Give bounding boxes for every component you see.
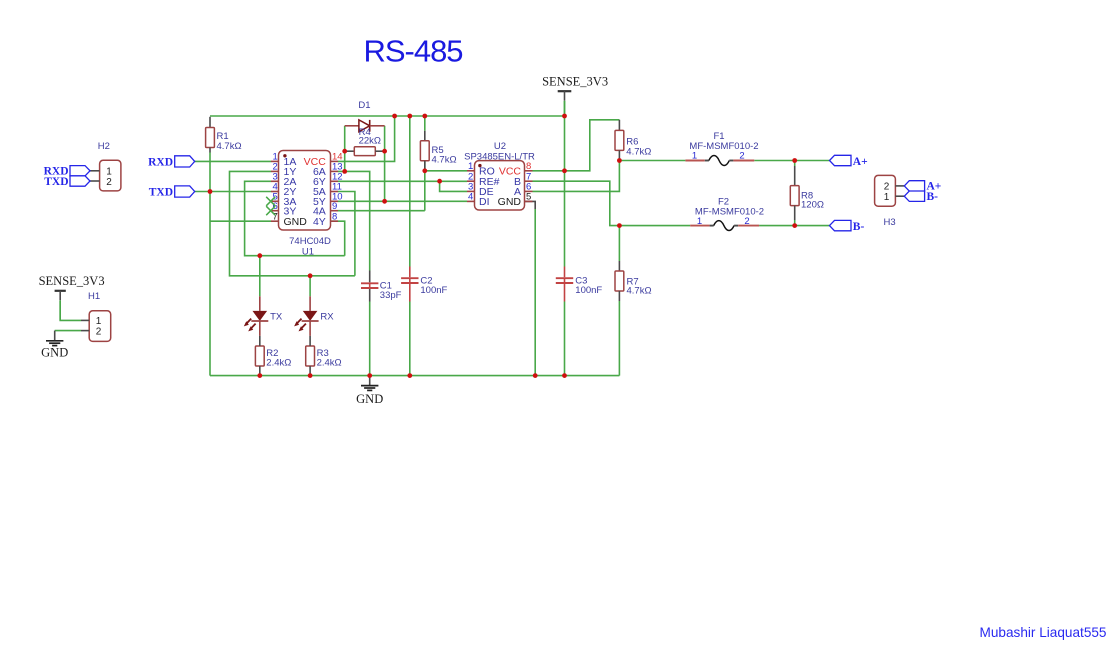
wire R5 junction to U2 pin1 RO [425,170,467,172]
svg-text:B-: B- [853,221,865,233]
wire H1 pin2 to GND [55,330,81,332]
wire B- line to F2 [619,225,690,227]
wire R5 bottom to RO line and U1 pin9 [424,161,426,211]
svg-text:2: 2 [96,326,102,337]
svg-text:GND: GND [41,345,68,359]
junction rail R2 (259.8,375.6) [257,373,262,378]
junction RX top (310.1,275.8) [308,273,313,278]
wire net GND bottom rail [210,375,619,377]
wire U2 DE tie to RE# line [440,181,467,191]
svg-text:2: 2 [739,151,744,162]
net label A+ at H3 [904,181,924,191]
resistor R5 [420,131,456,171]
resistor R2 [255,346,291,376]
svg-text:GND: GND [356,392,383,406]
wire U1 pin7 GND to left vertical [210,220,271,222]
junction R6/A+ (619.4,160.5) [617,158,622,163]
junction TXD/R1 (210,191.5) [208,189,213,194]
junction rail3 (424.8,116) [422,114,427,119]
svg-text:1: 1 [884,192,890,203]
junction rail C3 (564.5,375.6) [562,373,567,378]
junction pin13 (344.7,171.4) [342,169,347,174]
wire C2 bottom to GND rail [409,302,411,376]
svg-text:33pF: 33pF [380,290,402,301]
wire C1 bottom to GND rail [369,302,371,376]
wire R5 column top [424,116,426,131]
wire B- line F2 to flag [759,225,829,227]
ground symbol main [369,376,371,386]
junction rail1 (394.6,116) [392,114,397,119]
svg-text:H3: H3 [884,217,896,228]
wire U1 pin8 loop to TX line [331,221,345,256]
svg-text:5: 5 [526,192,531,203]
wire U1 pin11 vertical to RX line [338,192,355,276]
svg-text:SENSE_3V3: SENSE_3V3 [39,274,105,288]
svg-text:4.7kΩ: 4.7kΩ [217,141,242,152]
power flag SENSE_3V3 main [558,90,572,92]
wire TX LED top connection [259,256,261,297]
svg-text:4Y: 4Y [313,216,326,228]
svg-text:1: 1 [692,151,697,162]
net label B- at H3 [904,191,924,201]
junction R4 left (344.7,151.2) [342,149,347,154]
op-amp U2 SP3485EN-L/TR transceiver [464,141,535,210]
svg-text:SP3485EN-L/TR: SP3485EN-L/TR [464,151,535,162]
junction rail U2gnd (535.2,375.6) [533,373,538,378]
wire C3 bottom to GND rail [564,302,566,376]
svg-text:1: 1 [468,161,473,172]
svg-text:Mubashir Liaquat555: Mubashir Liaquat555 [980,625,1107,640]
wire R8 top connection [794,161,796,167]
wire RX LED top connection [309,276,311,297]
wire SENSE_3V3 vertical to C3 [564,101,566,267]
svg-text:2: 2 [106,177,112,188]
svg-text:B-: B- [927,191,939,203]
resistor R1 [206,117,242,153]
junction rail C2 (409.8,375.6) [407,373,412,378]
wire U2 pin7 B jog down to B- line [533,181,620,225]
junction pin10 (384.6,201.3) [382,199,387,204]
resistor R6 [615,120,651,161]
junction RE/DE (439.6,181.2) [437,179,442,184]
junction rail2 (409.8,116) [407,114,412,119]
connector H1 [81,291,111,341]
svg-text:RS-485: RS-485 [363,34,462,69]
svg-text:GND: GND [498,196,522,208]
diode D1 [345,100,385,132]
no-connect X on U1 pin 5 [266,197,275,206]
svg-text:TX: TX [270,311,283,322]
svg-text:RX: RX [320,311,334,322]
svg-text:120Ω: 120Ω [801,200,824,211]
resistor R4 [345,127,385,156]
junction rail R3 (310.1,375.6) [308,373,313,378]
fuse F1 MF-MSMF010-2 [685,131,758,165]
svg-text:D1: D1 [358,100,370,111]
svg-text:2: 2 [744,216,749,227]
svg-text:4.7kΩ: 4.7kΩ [627,286,652,297]
net label B- main [830,220,852,230]
junction rail4 (564.5,116) [562,114,567,119]
wire R7 top connection [618,226,620,261]
wire U2 pin6 A to R6 bottom [533,161,620,192]
wire U1 pin12 6Y to U2 RE# [338,180,467,182]
svg-text:22kΩ: 22kΩ [359,136,381,147]
wire H1 SENSE_3V3 to pin1 [60,301,81,320]
svg-text:4: 4 [468,192,473,203]
svg-text:MF-MSMF010-2: MF-MSMF010-2 [689,141,758,152]
net label TXD main [175,186,195,197]
power flag SENSE_3V3 at H1 [55,290,66,292]
capacitor C2 [401,267,447,302]
svg-text:9: 9 [332,201,337,212]
capacitor C1 [361,271,402,302]
wire U1 pin13 to C1 vertical [338,171,370,270]
net label RXD main [175,156,195,167]
wire diode loop left vertical [344,126,346,172]
svg-text:MF-MSMF010-2: MF-MSMF010-2 [695,206,764,217]
svg-text:A+: A+ [853,156,868,168]
wire net SENSE_3V3 top rail [210,115,565,117]
fuse F2 MF-MSMF010-2 [690,197,764,231]
junction R7/B- (619.4,225.6) [617,223,622,228]
svg-text:H2: H2 [98,141,110,152]
wire R7 bottom to GND rail [618,301,620,376]
ground symbol at H1 [54,331,56,341]
resistor R3 [306,346,342,376]
connector H2 [90,141,121,191]
svg-text:U1: U1 [302,247,314,258]
junction TX top (259.8,255.7) [257,253,262,258]
junction R8/B- (794.7,225.6) [792,223,797,228]
wire net RXD flag to U1 pin1 [195,160,272,162]
svg-text:8: 8 [332,211,337,222]
junction rail C1 (369.7,375.6) [367,373,372,378]
wire R1 column / TXD to GND rail vertical [209,153,211,376]
wire U2 GND vertical to rail [534,209,536,376]
net label RXD at H2 [70,166,90,176]
net label A+ main [830,155,852,165]
wire U2 pin5 GND down to rail [525,201,536,209]
wire U2 pin8 VCC line [533,120,620,171]
wire U1 pin3 loop to TX line [245,181,345,255]
junction R8/A+ (794.7,160.5) [792,158,797,163]
svg-text:GND: GND [284,216,308,228]
svg-text:DI: DI [479,196,490,208]
svg-text:TXD: TXD [149,186,173,198]
junction R4 right (384.6,151.2) [382,149,387,154]
op-amp U1 74HC04D hex inverter [271,151,343,258]
svg-text:2.4kΩ: 2.4kΩ [317,358,342,369]
junction R5/RO (424.8,170.8) [422,168,427,173]
wire diode loop right vertical [384,126,386,202]
wire U1 pin10 5Y to U2 DI [338,200,467,202]
wire R8 bottom connection [794,220,796,226]
svg-text:4.7kΩ: 4.7kΩ [432,154,457,165]
LED TX LED [244,296,283,346]
svg-text:SENSE_3V3: SENSE_3V3 [542,74,608,88]
svg-text:8: 8 [526,161,531,172]
LED RX LED [294,296,334,346]
svg-text:74HC04D: 74HC04D [289,236,331,247]
svg-text:100nF: 100nF [575,285,602,296]
wire U1 pin9 to R5 column [338,210,425,212]
wire net TXD flag to U1 pin4 [195,191,272,193]
wire A+ line F1 to flag [754,160,829,162]
capacitor C3 [556,267,603,302]
wire U1 pin14 VCC up to rail [338,116,395,161]
svg-text:RXD: RXD [148,156,173,168]
junction VCC U2 (564.5,170.8) [562,168,567,173]
wire U1 pin2 loop to RX line [230,171,355,275]
svg-text:2.4kΩ: 2.4kΩ [266,358,291,369]
resistor R7 [615,261,652,301]
svg-text:100nF: 100nF [420,285,447,296]
resistor R8 [790,166,824,220]
svg-text:1: 1 [697,216,702,227]
wire C2 column top [409,116,411,267]
no-connect X on U1 pin 6 [266,206,275,215]
net label TXD at H2 [70,176,90,186]
svg-text:TXD: TXD [44,176,68,188]
svg-text:H1: H1 [88,291,100,302]
connector H3 [875,175,905,228]
wire A+ line R6 to F1 [619,160,685,162]
svg-text:4.7kΩ: 4.7kΩ [626,147,651,158]
